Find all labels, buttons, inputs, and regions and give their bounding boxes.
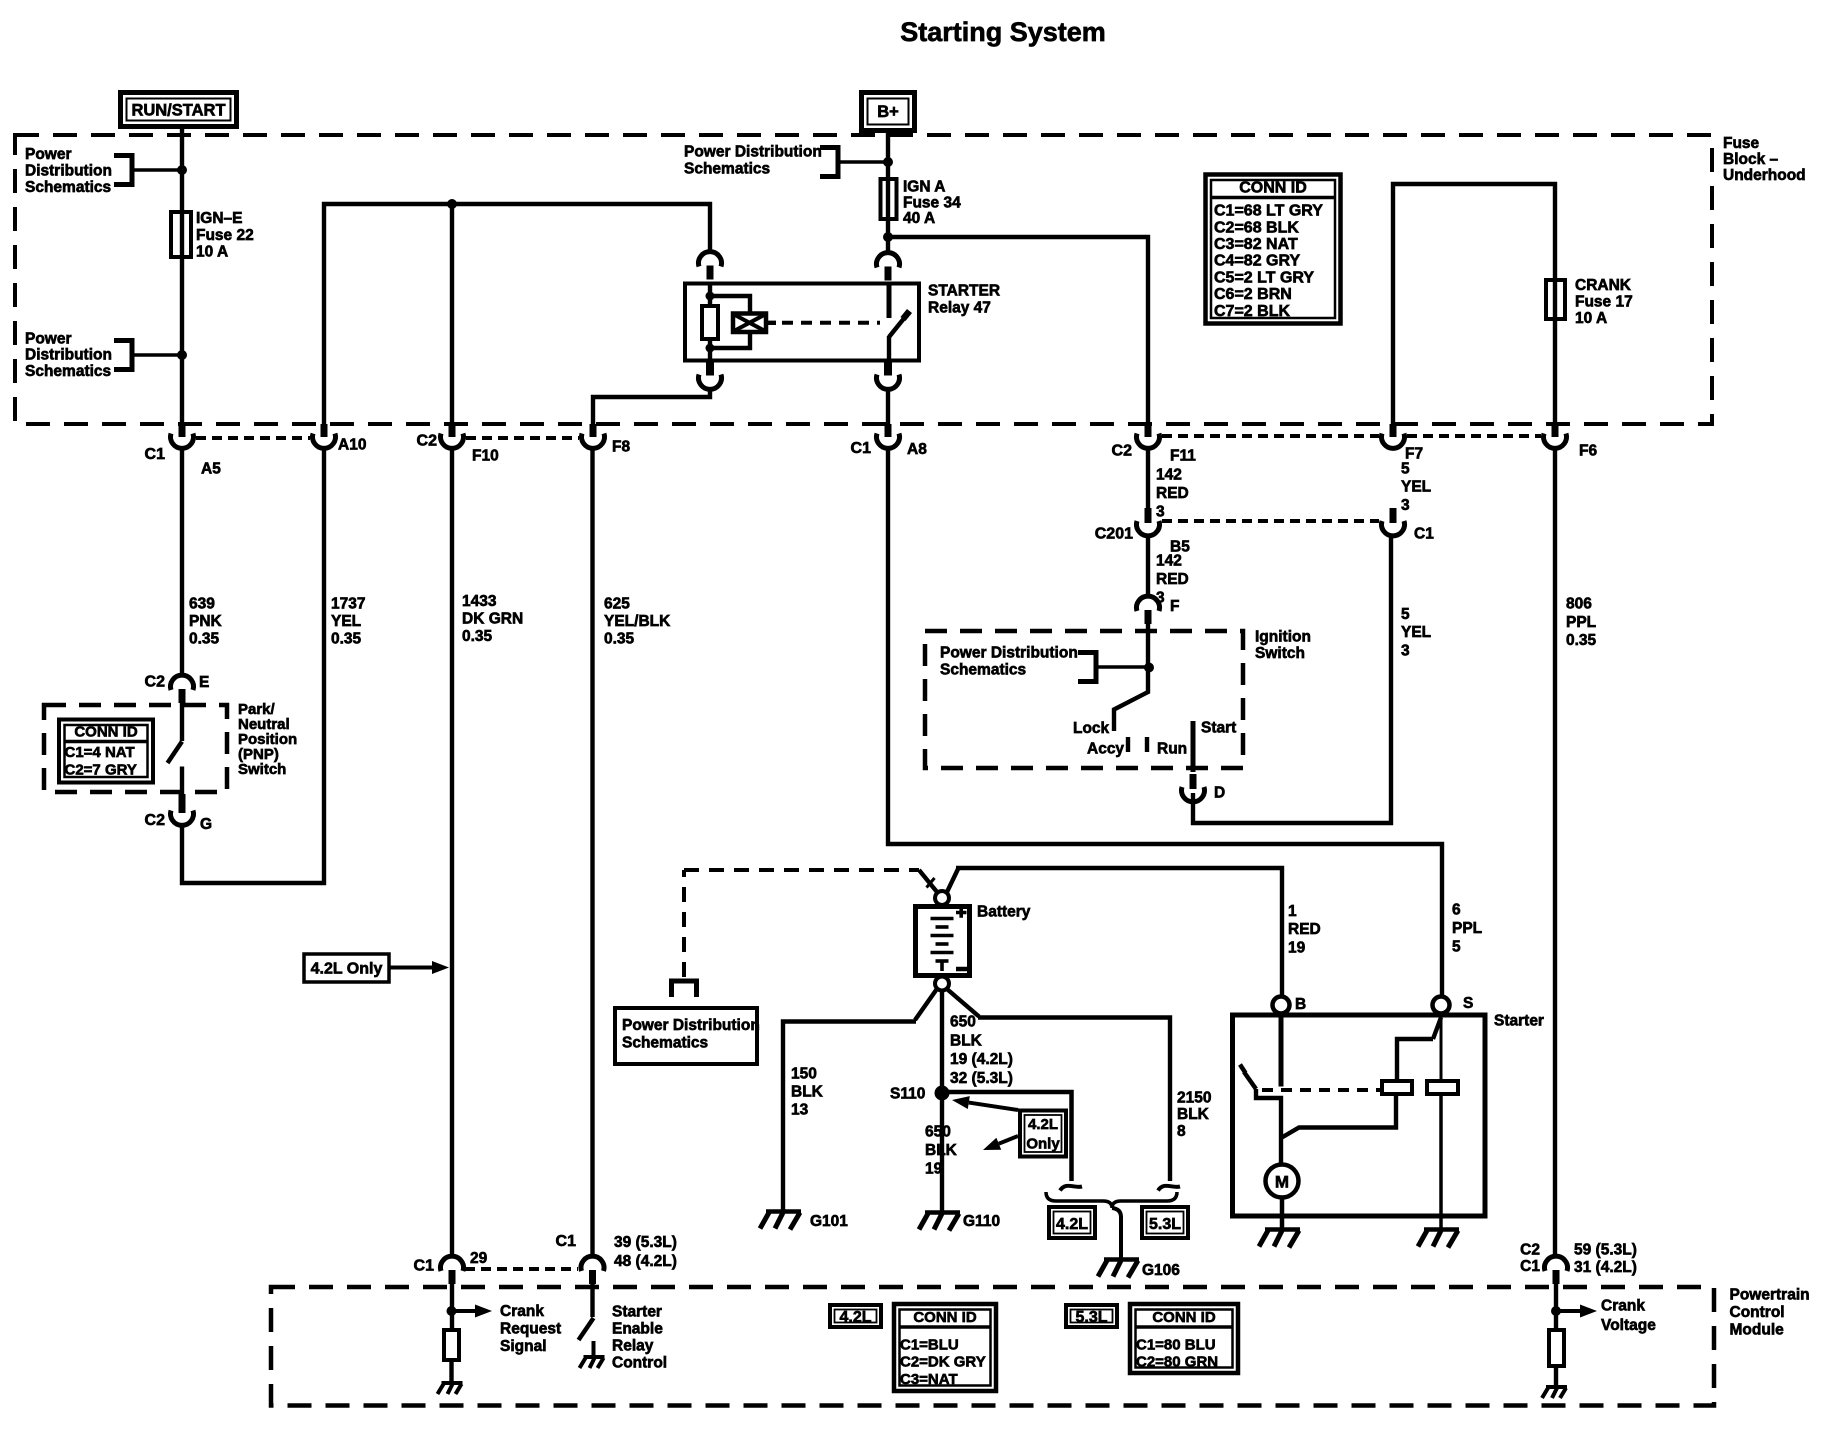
svg-text:Control: Control — [1730, 1304, 1785, 1321]
svg-text:RED: RED — [1156, 571, 1189, 588]
svg-text:C6=2 BRN: C6=2 BRN — [1214, 286, 1292, 303]
svg-text:639: 639 — [189, 596, 215, 613]
svg-text:C1=4 NAT: C1=4 NAT — [65, 744, 135, 761]
svg-text:39 (5.3L): 39 (5.3L) — [614, 1234, 677, 1251]
svg-text:Schematics: Schematics — [25, 179, 111, 196]
svg-text:5: 5 — [1401, 460, 1410, 477]
svg-text:Start: Start — [1201, 719, 1236, 736]
svg-text:CONN ID: CONN ID — [1239, 180, 1307, 197]
svg-text:DK GRN: DK GRN — [462, 610, 523, 627]
svg-text:C201: C201 — [1095, 526, 1133, 543]
svg-text:Crank: Crank — [500, 1303, 544, 1320]
svg-text:F10: F10 — [472, 448, 499, 465]
svg-text:Ignition: Ignition — [1255, 629, 1311, 646]
svg-text:Relay: Relay — [612, 1338, 654, 1355]
svg-text:59 (5.3L): 59 (5.3L) — [1574, 1242, 1637, 1259]
svg-text:Distribution: Distribution — [25, 347, 112, 364]
svg-text:F: F — [1170, 598, 1179, 615]
svg-text:C1: C1 — [851, 440, 872, 457]
svg-text:150: 150 — [791, 1066, 817, 1083]
svg-text:Underhood: Underhood — [1723, 167, 1806, 184]
svg-text:19: 19 — [925, 1160, 943, 1177]
svg-text:C2: C2 — [145, 812, 166, 829]
svg-text:RED: RED — [1156, 485, 1189, 502]
svg-text:CONN ID: CONN ID — [74, 724, 138, 741]
svg-text:CRANK: CRANK — [1575, 277, 1632, 294]
svg-text:C3=NAT: C3=NAT — [900, 1371, 958, 1388]
svg-text:5.3L: 5.3L — [1149, 1216, 1181, 1233]
svg-text:Battery: Battery — [977, 904, 1031, 921]
svg-text:C1=68 LT GRY: C1=68 LT GRY — [1214, 203, 1323, 220]
svg-text:G106: G106 — [1142, 1262, 1180, 1279]
svg-text:Distribution: Distribution — [25, 163, 112, 180]
svg-text:YEL: YEL — [331, 613, 361, 630]
svg-text:Control: Control — [612, 1355, 667, 1372]
svg-text:29: 29 — [470, 1250, 488, 1267]
svg-text:PNK: PNK — [189, 613, 223, 630]
svg-text:142: 142 — [1156, 467, 1182, 484]
svg-text:Power Distribution: Power Distribution — [684, 144, 822, 161]
svg-text:Switch: Switch — [1255, 645, 1305, 662]
svg-text:C2: C2 — [145, 673, 166, 690]
svg-text:B+: B+ — [877, 103, 899, 121]
svg-text:C2=7 GRY: C2=7 GRY — [65, 762, 137, 779]
svg-text:YEL/BLK: YEL/BLK — [604, 613, 671, 630]
svg-text:A10: A10 — [338, 436, 366, 453]
svg-text:YEL: YEL — [1401, 624, 1431, 641]
svg-text:C3=82 NAT: C3=82 NAT — [1214, 236, 1298, 253]
svg-text:IGN A: IGN A — [903, 179, 945, 196]
svg-text:C2=68 BLK: C2=68 BLK — [1214, 219, 1299, 236]
svg-text:Crank: Crank — [1601, 1298, 1645, 1315]
svg-text:4.2L: 4.2L — [1028, 1116, 1058, 1133]
svg-text:D: D — [1214, 785, 1225, 802]
svg-text:RUN/START: RUN/START — [131, 102, 225, 120]
svg-text:142: 142 — [1156, 553, 1182, 570]
svg-text:40 A: 40 A — [903, 210, 935, 227]
svg-text:C1: C1 — [414, 1257, 435, 1274]
svg-text:C2: C2 — [417, 433, 438, 450]
svg-text:48 (4.2L): 48 (4.2L) — [614, 1253, 677, 1270]
svg-text:C1=80 BLU: C1=80 BLU — [1136, 1337, 1216, 1354]
svg-text:PPL: PPL — [1566, 614, 1596, 631]
svg-text:1: 1 — [1288, 903, 1297, 920]
svg-text:32 (5.3L): 32 (5.3L) — [950, 1070, 1013, 1087]
svg-text:Block –: Block – — [1723, 151, 1779, 168]
svg-text:Power: Power — [25, 331, 72, 348]
svg-text:Fuse 22: Fuse 22 — [196, 227, 254, 244]
svg-text:8: 8 — [1177, 1123, 1186, 1140]
svg-text:5.3L: 5.3L — [1075, 1309, 1107, 1326]
svg-text:5: 5 — [1401, 606, 1410, 623]
svg-text:4.2L: 4.2L — [839, 1309, 871, 1326]
svg-text:1737: 1737 — [331, 596, 365, 613]
svg-text:BLK: BLK — [925, 1142, 958, 1159]
svg-text:19: 19 — [1288, 940, 1306, 957]
svg-text:F8: F8 — [612, 439, 630, 456]
svg-text:Power Distribution: Power Distribution — [940, 645, 1078, 662]
svg-text:RED: RED — [1288, 921, 1321, 938]
svg-text:Relay 47: Relay 47 — [928, 299, 991, 316]
svg-text:IGN–E: IGN–E — [196, 210, 243, 227]
svg-text:3: 3 — [1156, 504, 1165, 521]
svg-text:625: 625 — [604, 596, 630, 613]
svg-text:C7=2 BLK: C7=2 BLK — [1214, 303, 1290, 320]
svg-text:Starter: Starter — [612, 1304, 662, 1321]
svg-text:0.35: 0.35 — [462, 628, 493, 645]
svg-text:Powertrain: Powertrain — [1730, 1287, 1810, 1304]
svg-text:S: S — [1463, 995, 1473, 1012]
svg-text:G: G — [200, 816, 212, 833]
svg-text:A5: A5 — [201, 461, 221, 478]
svg-text:Switch: Switch — [238, 761, 286, 778]
svg-text:Run: Run — [1157, 741, 1187, 758]
svg-text:Schematics: Schematics — [622, 1035, 708, 1052]
svg-text:BLK: BLK — [950, 1032, 983, 1049]
svg-text:C2: C2 — [1112, 443, 1133, 460]
svg-text:C2: C2 — [1520, 1242, 1540, 1259]
svg-text:BLK: BLK — [1177, 1106, 1210, 1123]
svg-text:650: 650 — [925, 1124, 951, 1141]
svg-text:G101: G101 — [810, 1213, 848, 1230]
svg-text:G110: G110 — [963, 1213, 1000, 1230]
svg-text:Starter: Starter — [1494, 1013, 1544, 1030]
svg-text:19 (4.2L): 19 (4.2L) — [950, 1051, 1013, 1068]
svg-text:0.35: 0.35 — [331, 630, 362, 647]
svg-text:C1: C1 — [556, 1233, 577, 1250]
svg-text:4.2L: 4.2L — [1056, 1216, 1088, 1233]
svg-text:C2=80 GRN: C2=80 GRN — [1136, 1354, 1218, 1371]
svg-text:650: 650 — [950, 1014, 976, 1031]
svg-text:0.35: 0.35 — [604, 630, 635, 647]
svg-text:Power: Power — [25, 146, 72, 163]
svg-text:10 A: 10 A — [196, 244, 228, 261]
svg-text:5: 5 — [1452, 938, 1461, 955]
svg-text:Power Distribution: Power Distribution — [622, 1017, 760, 1034]
svg-text:E: E — [199, 674, 209, 691]
svg-text:10 A: 10 A — [1575, 310, 1607, 327]
svg-text:4.2L Only: 4.2L Only — [311, 961, 383, 978]
svg-text:Accy: Accy — [1087, 741, 1124, 758]
svg-text:C1: C1 — [145, 446, 166, 463]
svg-text:A8: A8 — [907, 441, 927, 458]
svg-text:13: 13 — [791, 1102, 809, 1119]
svg-text:STARTER: STARTER — [928, 283, 1000, 300]
svg-text:Voltage: Voltage — [1601, 1317, 1656, 1334]
svg-text:Schematics: Schematics — [940, 662, 1026, 679]
svg-text:6: 6 — [1452, 902, 1461, 919]
svg-text:S110: S110 — [890, 1086, 925, 1103]
svg-text:Request: Request — [500, 1321, 561, 1338]
svg-text:0.35: 0.35 — [1566, 632, 1597, 649]
svg-text:Signal: Signal — [500, 1338, 547, 1355]
svg-text:Module: Module — [1730, 1322, 1785, 1339]
svg-text:CONN ID: CONN ID — [1152, 1309, 1216, 1326]
svg-text:Fuse 34: Fuse 34 — [903, 194, 961, 211]
svg-text:Fuse: Fuse — [1723, 135, 1760, 152]
svg-text:Schematics: Schematics — [25, 363, 111, 380]
svg-text:1433: 1433 — [462, 593, 497, 610]
svg-text:3: 3 — [1401, 643, 1410, 660]
svg-text:Only: Only — [1026, 1136, 1060, 1153]
svg-text:0.35: 0.35 — [189, 630, 220, 647]
svg-text:C5=2 LT GRY: C5=2 LT GRY — [1214, 269, 1314, 286]
svg-text:Lock: Lock — [1073, 720, 1110, 737]
svg-text:C1=BLU: C1=BLU — [900, 1337, 959, 1354]
svg-text:C2=DK GRY: C2=DK GRY — [900, 1354, 986, 1371]
svg-text:BLK: BLK — [791, 1084, 824, 1101]
svg-text:31 (4.2L): 31 (4.2L) — [1574, 1259, 1637, 1276]
svg-text:YEL: YEL — [1401, 479, 1431, 496]
svg-text:3: 3 — [1401, 497, 1410, 514]
svg-text:2150: 2150 — [1177, 1090, 1211, 1107]
svg-text:F6: F6 — [1579, 443, 1597, 460]
svg-text:C1: C1 — [1414, 526, 1434, 543]
svg-text:PPL: PPL — [1452, 920, 1482, 937]
svg-text:Starting System: Starting System — [900, 17, 1106, 47]
svg-text:806: 806 — [1566, 596, 1592, 613]
svg-text:Enable: Enable — [612, 1321, 663, 1338]
svg-text:CONN ID: CONN ID — [913, 1309, 977, 1326]
svg-text:F11: F11 — [1170, 448, 1196, 465]
svg-text:M: M — [1275, 1173, 1289, 1192]
svg-text:Schematics: Schematics — [684, 161, 770, 178]
svg-text:Fuse 17: Fuse 17 — [1575, 294, 1633, 311]
svg-text:C1: C1 — [1520, 1258, 1540, 1275]
svg-text:B: B — [1295, 996, 1306, 1013]
svg-text:C4=82 GRY: C4=82 GRY — [1214, 253, 1300, 270]
